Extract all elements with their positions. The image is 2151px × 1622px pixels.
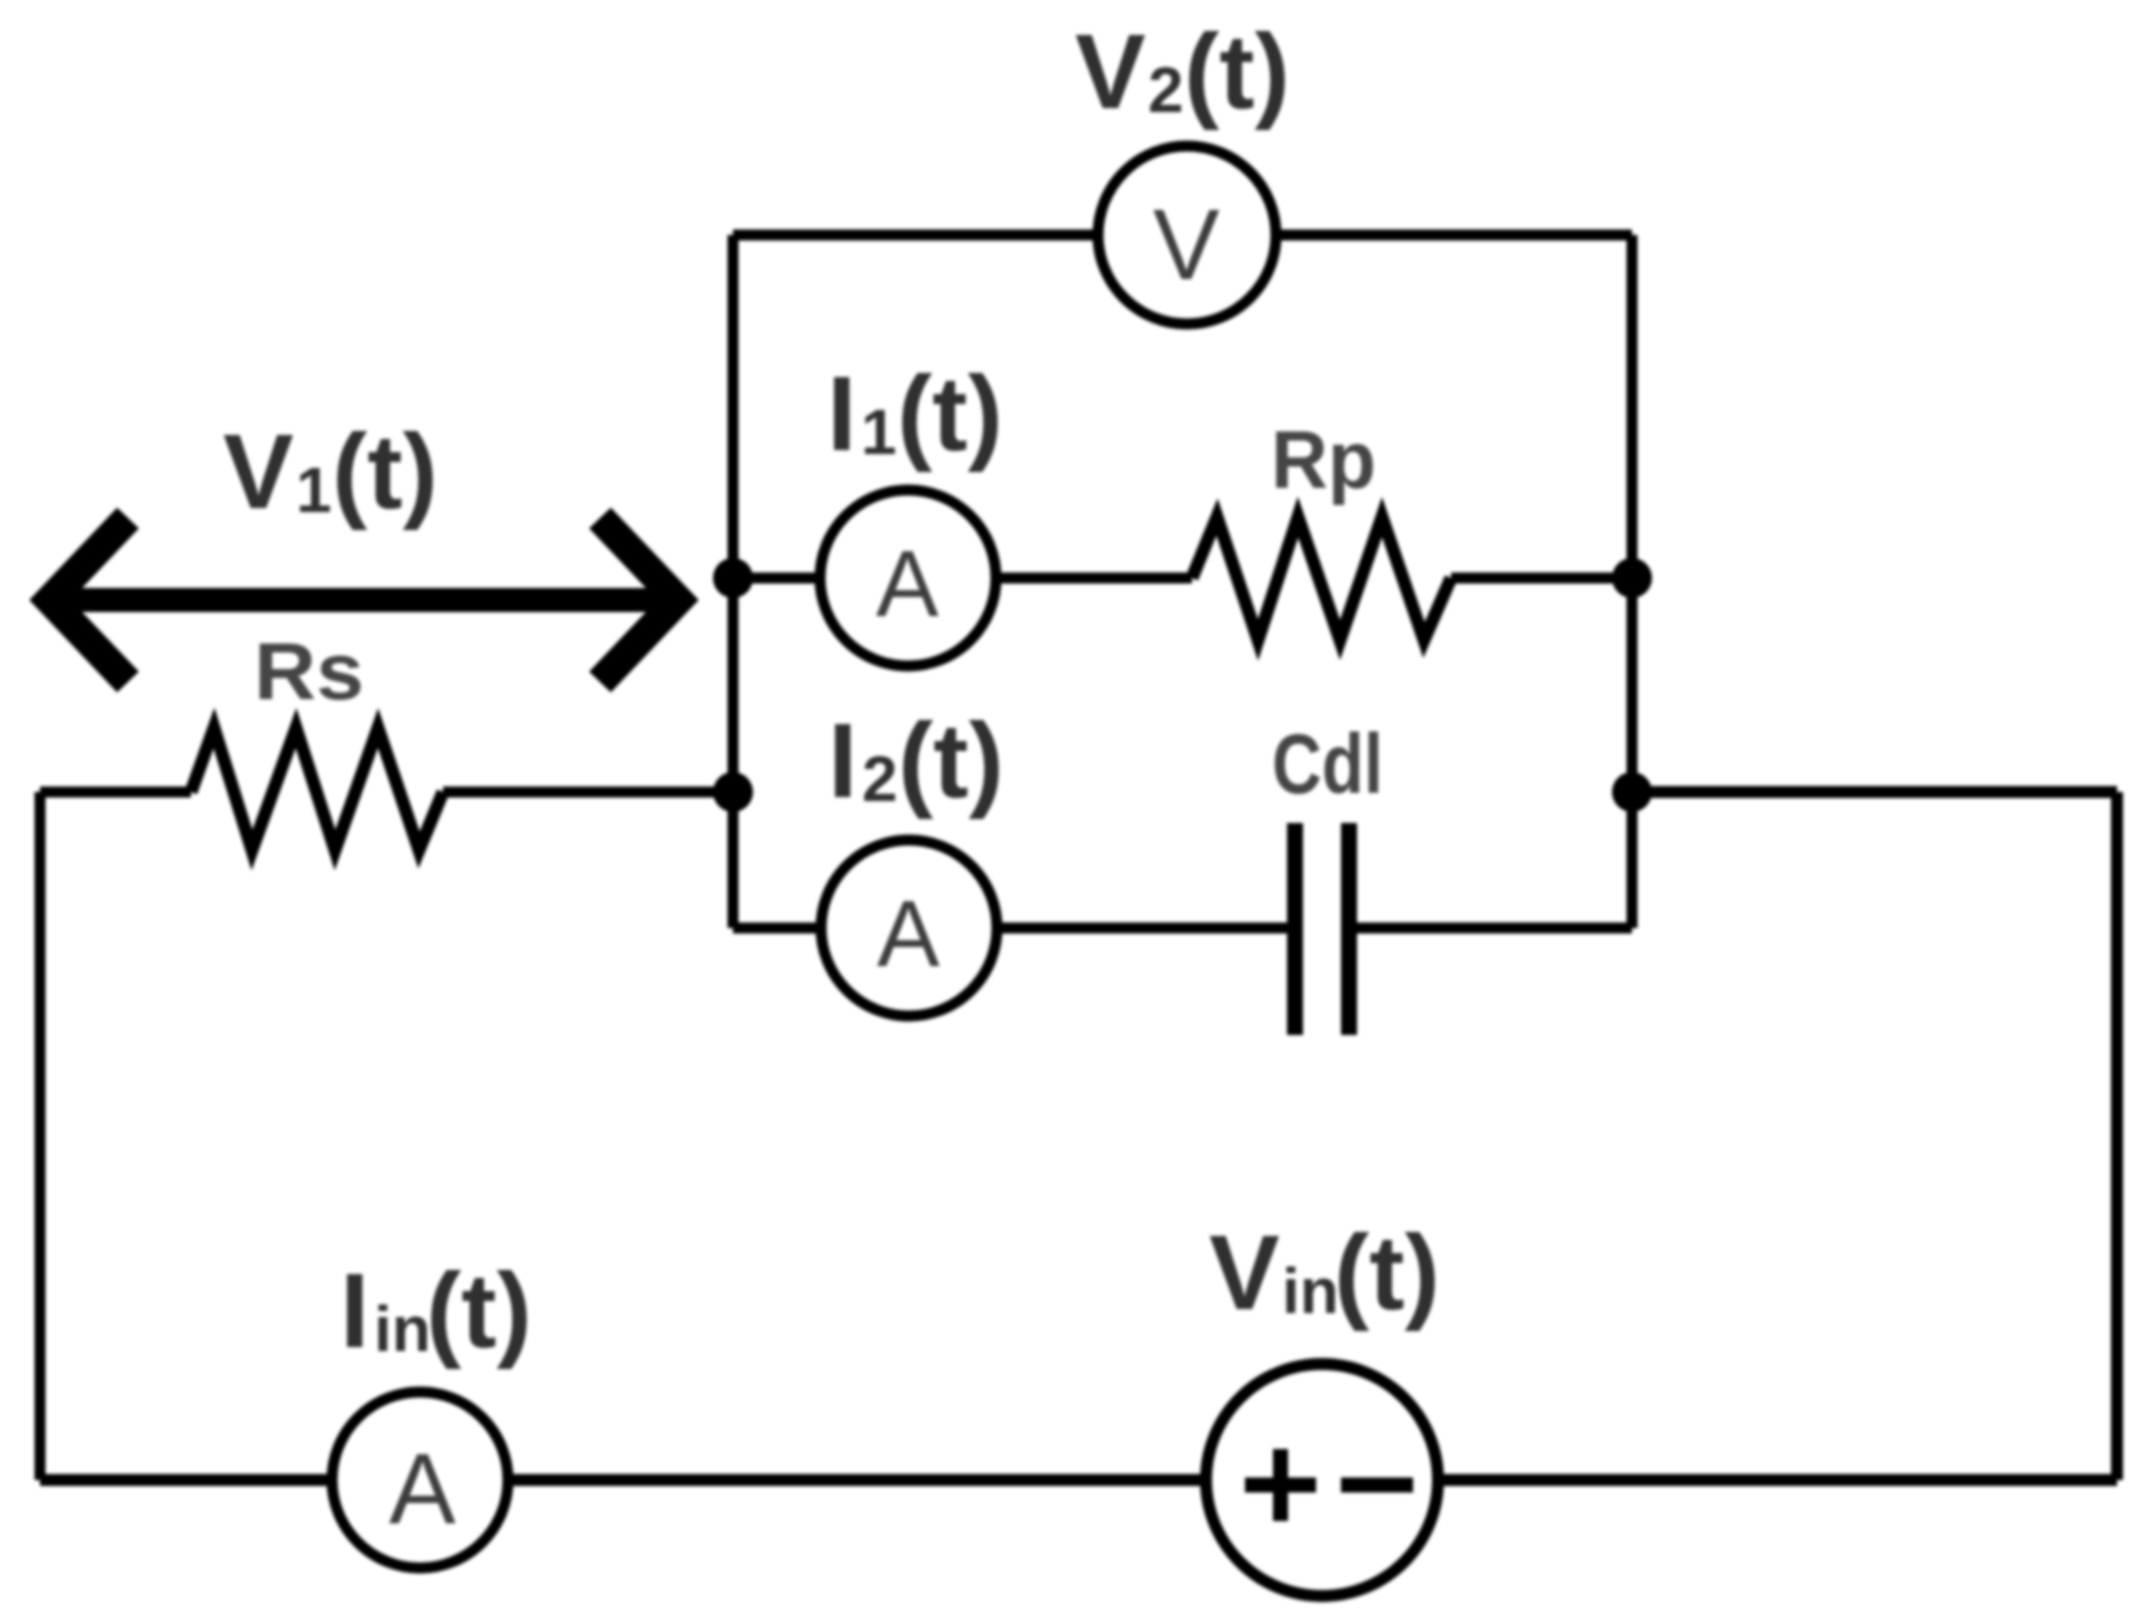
node A (left, branch 1): [713, 558, 753, 598]
svg-text:Cdl: Cdl: [1272, 717, 1383, 811]
capacitor Cdl: [1295, 823, 1349, 1035]
svg-text:V: V: [1075, 13, 1146, 131]
svg-text:I: I: [828, 702, 857, 820]
wire branch 2 right segment (Cdl to right): [1349, 923, 1632, 934]
label I1(t): [827, 355, 1003, 473]
svg-text:A: A: [389, 1433, 456, 1545]
wire right side of parallel box: [1627, 235, 1638, 928]
wire main left run through Rs: [40, 787, 733, 798]
wire branch 2 left segment (to Cdl): [733, 923, 1295, 934]
node B (left, main run): [713, 772, 753, 812]
label Iin(t): [340, 1252, 532, 1370]
arrow V1 measurement double arrow: [50, 518, 678, 682]
svg-text:2: 2: [862, 743, 898, 815]
wire outer top-right run to node: [1632, 786, 2117, 798]
svg-text:1: 1: [296, 454, 332, 526]
wire top of parallel box: [733, 230, 1632, 241]
svg-text:V: V: [1153, 189, 1220, 301]
svg-text:(t): (t): [897, 355, 1003, 473]
wire branch 1 left segment (node to Rp): [733, 573, 1192, 584]
wire outer bottom: [40, 1474, 2117, 1486]
node C (right, branch 1): [1612, 558, 1652, 598]
svg-text:Rp: Rp: [1271, 415, 1376, 506]
svg-text:A: A: [877, 881, 940, 986]
voltage source Vin: [1206, 1364, 1438, 1596]
svg-text:Rs: Rs: [254, 627, 364, 717]
label V1(t): [223, 413, 438, 531]
svg-text:A: A: [876, 531, 939, 636]
wire outer right side: [2111, 792, 2123, 1480]
node D (right, outer loop): [1612, 772, 1652, 812]
resistor Rp: [1192, 517, 1451, 640]
svg-text:2: 2: [1148, 54, 1184, 126]
ammeter I2 meter: [821, 840, 997, 1016]
svg-text:in: in: [374, 1293, 431, 1365]
svg-text:I: I: [340, 1252, 369, 1370]
resistor Rs: [191, 728, 443, 850]
svg-text:(t): (t): [332, 413, 438, 531]
ammeter Iin meter: [332, 1392, 508, 1568]
label I2(t): [828, 702, 1004, 820]
svg-text:(t): (t): [1184, 13, 1290, 131]
label V2(t): [1075, 13, 1290, 131]
svg-text:(t): (t): [1334, 1214, 1440, 1332]
wire left side of parallel box: [728, 235, 739, 928]
svg-text:V: V: [1209, 1214, 1280, 1332]
svg-text:(t): (t): [426, 1252, 532, 1370]
voltmeter V2 meter: [1098, 146, 1276, 324]
svg-text:in: in: [1282, 1255, 1339, 1327]
svg-text:1: 1: [861, 396, 897, 468]
svg-text:(t): (t): [898, 702, 1004, 820]
svg-text:I: I: [827, 355, 856, 473]
label Vin(t): [1209, 1214, 1440, 1332]
wire outer left side: [35, 792, 46, 1480]
ammeter I1 meter: [820, 490, 996, 666]
wire branch 1 right segment (Rp to right node): [1451, 573, 1632, 584]
svg-text:V: V: [223, 413, 294, 531]
